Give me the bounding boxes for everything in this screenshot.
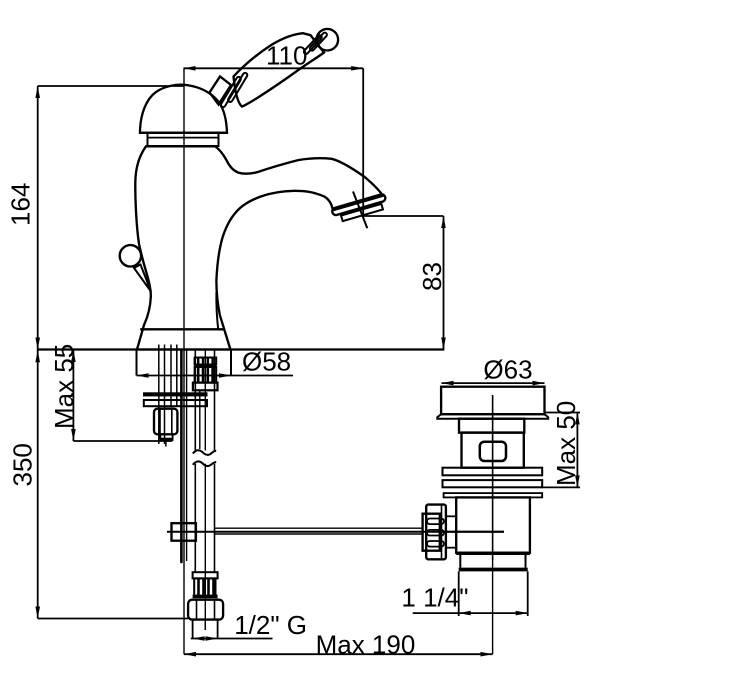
handle ball (317, 29, 339, 51)
svg-text:Max 50: Max 50 (551, 401, 581, 486)
rod pair2 (170, 345, 172, 407)
stud pair (158, 345, 160, 445)
svg-text:Max 55: Max 55 (49, 344, 79, 429)
tail (459, 555, 461, 568)
1/2 G (191, 638, 273, 640)
drain centerline (492, 395, 494, 654)
Max50 (576, 413, 578, 488)
pop-up lever ball (120, 245, 141, 266)
svg-text:83: 83 (417, 262, 447, 291)
handle blade (234, 33, 325, 106)
handle stem (210, 77, 232, 105)
pipe break (194, 451, 217, 464)
83 (364, 215, 444, 217)
svg-text:Max 190: Max 190 (316, 630, 416, 660)
svg-text:1 1/4": 1 1/4" (401, 583, 468, 613)
base skirt top line (140, 328, 224, 330)
supply pipe walls (194, 350, 196, 573)
washer plate outline (144, 400, 207, 406)
O58 (137, 375, 294, 377)
clamp + rod (167, 531, 504, 533)
pipe top nut: cap, heavy band, hatch, collar (195, 358, 217, 365)
neck (459, 419, 524, 433)
svg-text:1/2" G: 1/2" G (234, 610, 307, 640)
rod into body (446, 531, 504, 533)
body bottom joint (456, 553, 530, 555)
mounting nut (154, 409, 177, 435)
svg-text:110: 110 (266, 41, 307, 71)
164/350 vertical (37, 86, 39, 619)
110 (184, 67, 364, 69)
handle collar rings (220, 72, 248, 108)
plates (443, 468, 543, 476)
centerline faucet (183, 68, 185, 654)
1 1/4 extensions (458, 571, 460, 616)
below-deck: base cylinder sides (136, 350, 138, 376)
svg-text:164: 164 (6, 183, 36, 226)
knurled nut (426, 505, 446, 560)
overflow square (480, 442, 506, 461)
pipe bottom: collar, hatch, hex nut, tail (193, 572, 218, 578)
washer bar dark (143, 392, 208, 396)
base inner edge (216, 292, 218, 329)
pop-up rod thick (180, 350, 183, 562)
svg-text:350: 350 (8, 443, 38, 486)
upper body (462, 433, 524, 468)
Max190 (184, 653, 493, 655)
middle body (456, 497, 530, 552)
1 1/4 (413, 612, 528, 614)
dome cap (140, 85, 227, 133)
svg-text:Ø58: Ø58 (242, 347, 291, 377)
handle end rings (303, 32, 328, 55)
deck line (38, 348, 445, 350)
flange (441, 387, 544, 415)
dome collar (148, 133, 219, 146)
pop-up lever rod (134, 265, 151, 292)
O63 (442, 382, 545, 384)
Max55 (72, 350, 74, 441)
svg-text:Ø63: Ø63 (483, 355, 532, 385)
faucet body outline (135, 146, 383, 349)
